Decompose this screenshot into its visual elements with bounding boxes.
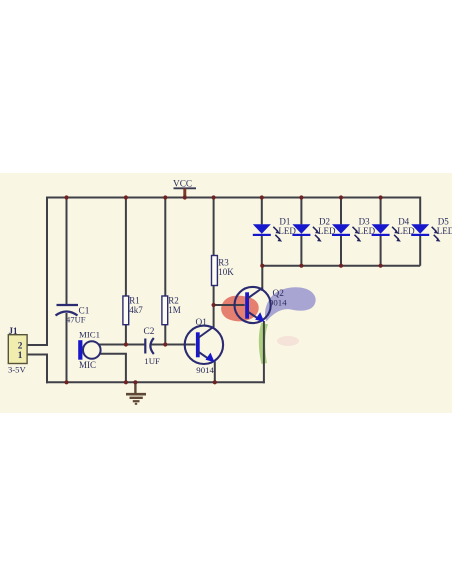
junction top rail R1 <box>124 195 128 199</box>
svg-text:C2: C2 <box>144 327 155 337</box>
junction top rail D4 <box>379 195 383 199</box>
watermark faint pink smudge <box>277 336 299 346</box>
wire D4 branch <box>380 197 382 266</box>
junction top rail D2 <box>299 195 303 199</box>
svg-text:MIC: MIC <box>79 360 96 370</box>
svg-text:D1: D1 <box>279 217 290 227</box>
wire top rail <box>47 197 420 199</box>
svg-text:1: 1 <box>18 351 23 361</box>
transistor Q2 <box>235 287 288 323</box>
transistor Q1 <box>185 318 223 375</box>
watermark red blob <box>221 296 259 322</box>
wire R1 top <box>125 197 127 297</box>
wire D1 branch <box>261 197 263 266</box>
wire J1 pin2 <box>28 344 49 346</box>
wire R2 bottom <box>164 325 166 345</box>
svg-text:47UF: 47UF <box>66 315 86 325</box>
svg-text:10K: 10K <box>218 267 234 277</box>
svg-text:R2: R2 <box>168 295 179 305</box>
svg-text:3-5V: 3-5V <box>8 364 26 374</box>
wire Q2 emitter down <box>263 321 265 383</box>
watermark green streak <box>259 323 268 365</box>
photo background <box>0 173 452 413</box>
watermark lavender blob <box>265 287 316 321</box>
capacitor C2 <box>144 327 161 366</box>
svg-text:D4: D4 <box>398 217 409 227</box>
resistor R3 <box>212 256 235 286</box>
junction LED rail D4 <box>379 264 383 268</box>
connector J1 <box>8 326 27 375</box>
wire C2 left <box>126 344 145 346</box>
LED D4 <box>372 217 416 242</box>
svg-text:9014: 9014 <box>269 297 287 307</box>
svg-text:4k7: 4k7 <box>129 305 143 315</box>
wire LED bottom rail <box>262 265 420 267</box>
wire Q1 emitter down <box>214 362 216 383</box>
svg-text:Q1: Q1 <box>196 318 208 328</box>
wire MIC lower <box>99 353 127 355</box>
junction LED rail D3 <box>339 264 343 268</box>
svg-text:D5: D5 <box>438 217 449 227</box>
wire D5 branch <box>419 197 421 266</box>
capacitor C1 <box>56 305 90 325</box>
junction top rail VCC <box>183 195 187 199</box>
junction top rail R3 <box>212 195 216 199</box>
svg-text:2: 2 <box>18 341 23 351</box>
wire R3 top <box>213 197 215 256</box>
svg-text:D2: D2 <box>319 217 330 227</box>
resistor R2 <box>162 295 181 324</box>
svg-text:9014: 9014 <box>196 365 214 375</box>
wire C1 top <box>66 197 68 306</box>
wire pin1 down <box>46 355 48 384</box>
wire D2 branch <box>300 197 302 266</box>
wire D3 branch <box>340 197 342 266</box>
svg-text:1UF: 1UF <box>144 356 160 366</box>
junction node R3 Q2 base <box>212 303 216 307</box>
junction LED rail D2 <box>299 264 303 268</box>
junction bottom rail Q1 emitter <box>213 380 217 384</box>
svg-text:MIC1: MIC1 <box>79 330 100 340</box>
wire C1 bottom <box>66 313 68 382</box>
wire R3 bottom to Q1 collector <box>213 286 215 328</box>
junction top rail D3 <box>339 195 343 199</box>
LED D2 <box>292 217 336 242</box>
junction bottom rail MIC <box>124 380 128 384</box>
junction node R1 MIC C2 <box>124 342 128 346</box>
LED D3 <box>332 217 376 242</box>
junction top rail D1 <box>260 195 264 199</box>
LED D1 <box>253 217 297 242</box>
wire J1 pin1 <box>28 354 49 356</box>
microphone MIC1 <box>78 330 100 371</box>
wire R1 bottom <box>125 325 127 345</box>
wire MIC lower down <box>125 354 127 383</box>
junction top rail C1 <box>64 195 68 199</box>
junction LED rail D1 Q2 collector <box>260 264 264 268</box>
wire left rail (pin2 up) <box>46 197 48 346</box>
wire MIC upper <box>99 344 126 346</box>
svg-text:LED: LED <box>437 226 452 236</box>
wire Q2 collector up <box>261 266 263 291</box>
junction node R2 C2 <box>163 342 167 346</box>
svg-text:1M: 1M <box>168 305 181 315</box>
wire C2 right to Q1 base <box>151 344 196 346</box>
svg-text:J1: J1 <box>9 326 19 336</box>
resistor R1 <box>123 295 143 324</box>
ground <box>126 382 146 404</box>
junction bottom rail ground <box>133 380 137 384</box>
VCC symbol <box>173 180 196 198</box>
junction bottom rail C1 <box>64 380 68 384</box>
svg-text:R3: R3 <box>218 258 229 268</box>
junction top rail R2 <box>163 195 167 199</box>
wire R2 top <box>164 197 166 297</box>
wire bottom rail <box>46 381 265 383</box>
wire Q2 base <box>214 304 245 306</box>
svg-text:R1: R1 <box>129 295 140 305</box>
LED D5 <box>411 217 452 242</box>
svg-text:D3: D3 <box>359 217 370 227</box>
